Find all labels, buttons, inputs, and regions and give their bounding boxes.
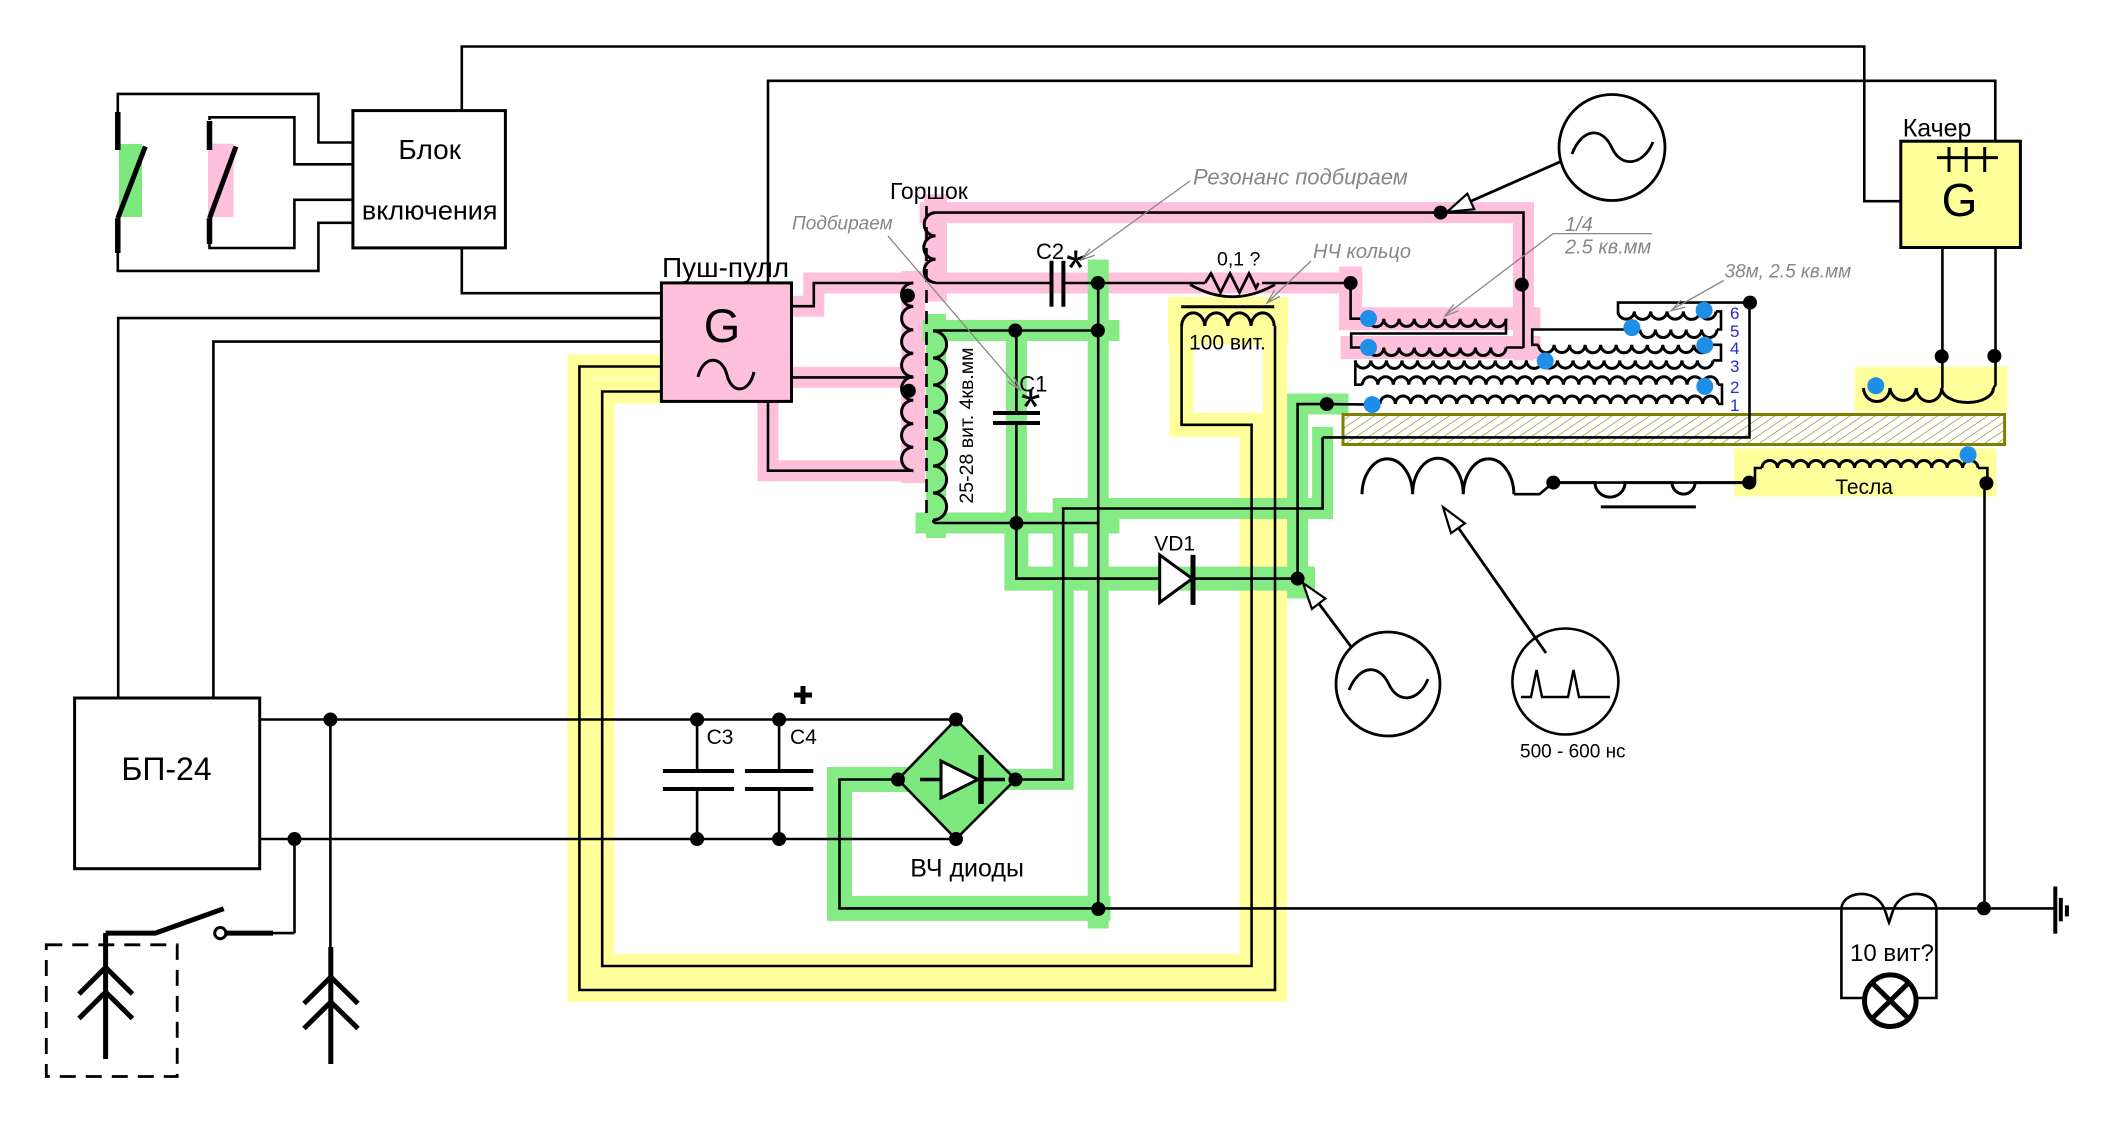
node: bridge AC left	[891, 773, 905, 787]
antenna 1	[103, 933, 108, 1059]
100-turn ring core bar	[1181, 305, 1274, 308]
svg-text:НЧ кольцо: НЧ кольцо	[1313, 241, 1411, 263]
100-turn ring winding (4 arcs)	[1182, 313, 1275, 326]
node: tesla ground junction	[1977, 901, 1991, 915]
resistor 0.1 ohm (zigzag with arc)	[1205, 274, 1259, 293]
svg-text:Качер: Качер	[1903, 114, 1972, 142]
svg-text:БП-24: БП-24	[121, 751, 211, 787]
sine source circle 1	[1559, 95, 1665, 201]
svg-text:C3: C3	[707, 726, 734, 749]
highlight band: green bridge left loop	[840, 780, 1099, 909]
transformer primary winding (8 arcs, pot core)	[902, 283, 914, 471]
kacher grid symbol	[1937, 156, 1998, 159]
polarity dot: primary winding 1	[901, 289, 915, 303]
winding start dot: tesla secondary	[1960, 446, 1977, 463]
node: spark coil output	[1546, 476, 1560, 490]
svg-text:100 вит.: 100 вит.	[1189, 332, 1266, 355]
switch 2 contacts and blade	[207, 121, 213, 150]
pot core dashed line	[925, 206, 928, 520]
node: kacher pin2 tap	[1987, 349, 2001, 363]
push-pull generator box	[661, 283, 791, 402]
svg-text:Резонанс подбираем: Резонанс подбираем	[1193, 165, 1408, 190]
wire: BP-24 riser 2 to push-pull input 3	[213, 342, 661, 698]
svg-text:Пуш-пулл: Пуш-пулл	[662, 252, 789, 283]
highlight band: pink primary return	[768, 401, 913, 471]
node: bridge AC right	[1009, 773, 1023, 787]
pulse source circle	[1512, 629, 1618, 735]
switch block box	[353, 111, 506, 248]
wire: BP-24 plus rail	[260, 718, 956, 721]
line choke: two dips	[1553, 483, 1749, 498]
wire: C2 junction drop	[1097, 283, 1100, 909]
wire: row2-row1 right bracket	[1718, 385, 1722, 404]
node: C3 top	[690, 713, 704, 727]
wire: top line from switch block to kacher	[462, 47, 1901, 202]
capacitor C4	[745, 769, 813, 773]
wire: outer switch loop top	[118, 94, 353, 143]
highlight band: green VD1 line	[1016, 523, 1303, 579]
НЧ row A winding	[1369, 319, 1507, 327]
svg-text:3: 3	[1730, 357, 1739, 376]
capacitor C2	[1050, 261, 1054, 307]
wire: VD1 output riser to stack row1	[1298, 404, 1373, 578]
highlight band: kacher feedback winding	[1855, 367, 2008, 412]
sine source circle 2	[1336, 632, 1440, 736]
wire: kacher pin 1	[1941, 248, 1944, 389]
svg-text:*: *	[1021, 379, 1040, 435]
transformer secondary winding (7 arcs)	[933, 331, 947, 520]
switch 1 highlight	[119, 144, 142, 217]
wire: bridge left loop to ground line	[840, 780, 2054, 909]
wire: row A hairpin return	[1351, 319, 1506, 348]
highlight band: pink C2 line left	[936, 273, 1087, 294]
wire: switch drop	[293, 839, 296, 933]
highlight band: green secondary winding	[926, 324, 946, 528]
node: stack top corner	[1743, 296, 1757, 310]
node: secondary top junction	[1091, 324, 1105, 338]
wire: C2 line	[936, 282, 1206, 285]
tesla secondary winding (14 bumps)	[1762, 460, 1978, 468]
highlight band: pink resonance top line	[930, 213, 1524, 350]
node: C3 bottom	[690, 832, 704, 846]
svg-text:Блок: Блок	[398, 134, 461, 165]
node: bridge plus	[949, 713, 963, 727]
wire: VD1 line	[1016, 523, 1297, 579]
winding start dot: row 1	[1364, 396, 1381, 413]
stack row 1 winding	[1380, 396, 1718, 404]
wire: tesla winding left lead	[1749, 468, 1762, 483]
node: kacher pin1 tap	[1935, 349, 1949, 363]
switch 2 highlight	[208, 144, 234, 217]
node: resonance line tap	[1434, 206, 1448, 220]
svg-text:10 вит?: 10 вит?	[1850, 940, 1934, 967]
highlight band: green C2-to-bottom vertical	[1088, 270, 1109, 918]
svg-text:G: G	[1942, 174, 1978, 226]
node: secondary bottom junction	[1009, 516, 1023, 530]
node: tesla primary left	[1742, 476, 1756, 490]
lamp (circle with X)	[1865, 975, 1917, 1027]
node: resistor line end	[1344, 276, 1358, 290]
resonance pickup winding (3 arcs)	[924, 213, 936, 283]
wire: second top line from push-pull to kacher	[768, 81, 1995, 283]
wire: C1 branch	[1015, 331, 1018, 524]
winding start dot: row 3	[1537, 353, 1554, 370]
wire: row3-row2 left connector	[1355, 360, 1362, 384]
node: minus rail switch tap	[288, 832, 302, 846]
svg-text:Тесла: Тесла	[1835, 476, 1893, 499]
highlight band: 100-turn ring head	[1168, 297, 1288, 345]
winding start dot: row B	[1360, 339, 1377, 356]
svg-text:C2: C2	[1036, 239, 1064, 264]
winding start dot: row 4	[1696, 337, 1713, 354]
НЧ row B winding	[1369, 348, 1507, 356]
ferrite rod (hatched bar)	[1343, 415, 2005, 445]
winding start dot: row 6	[1696, 302, 1713, 319]
highlight band: yellow outer loop (push-pull to ring)	[579, 310, 1275, 990]
polarity dot: primary winding 2	[902, 384, 916, 398]
arrow from sine 2 to VD1 output	[1308, 589, 1352, 648]
highlight band: tesla secondary winding	[1734, 449, 1996, 497]
spark coil (3 big arcs)	[1362, 458, 1514, 494]
highlight band: yellow inner loop (push-pull to ring)	[602, 310, 1251, 966]
highlight band: green secondary top line	[933, 320, 1109, 341]
svg-text:1: 1	[1730, 396, 1739, 415]
push-pull sine squiggle	[698, 360, 754, 389]
wire: row A feed	[1351, 283, 1369, 319]
wire: row5-row4 left connector	[1532, 330, 1640, 345]
svg-text:0,1 ?: 0,1 ?	[1217, 249, 1261, 271]
node: rows riser mid	[1515, 278, 1529, 292]
wire: yellow inner loop	[602, 326, 1251, 966]
highlight band: green stack return path	[1016, 437, 1323, 779]
wire: secondary top line	[933, 329, 1098, 332]
svg-text:38м, 2.5 кв.мм: 38м, 2.5 кв.мм	[1725, 262, 1852, 283]
kacher box	[1901, 141, 2021, 247]
wire: BP-24 minus rail	[260, 838, 956, 841]
wire: outer switch loop bottom	[118, 223, 353, 271]
wire: primary return	[768, 401, 913, 470]
diode VD1	[1160, 555, 1193, 603]
wire: row6-row5 right bracket	[1716, 311, 1721, 329]
svg-text:*: *	[1066, 240, 1085, 296]
line choke underline	[1601, 505, 1696, 508]
stack row 4 winding	[1539, 345, 1710, 353]
node: bridge minus	[949, 832, 963, 846]
wire: yellow outer loop	[579, 326, 1275, 990]
node: stack row1 lead	[1320, 397, 1334, 411]
wire: resonance top line	[936, 213, 1524, 348]
svg-text:6: 6	[1730, 304, 1739, 323]
node: C4 bottom	[772, 832, 786, 846]
highlight band: green C1 branch	[1006, 331, 1027, 524]
wire: kacher pin 2	[1993, 248, 1995, 389]
wire: push-pull output top to primary	[792, 283, 914, 306]
dashed box around antenna 1	[46, 945, 177, 1077]
winding start dot: row 5	[1623, 319, 1640, 336]
svg-text:C4: C4	[790, 726, 817, 749]
node: VD1 cathode net	[1291, 572, 1305, 586]
bridge diode symbol	[920, 778, 1005, 781]
wire: row B to riser	[1506, 346, 1524, 349]
10-turn pickup coil with lamp	[1841, 894, 1936, 998]
highlight band: pink primary winding	[901, 283, 925, 471]
svg-text:включения: включения	[362, 196, 498, 226]
stack row 5 winding	[1640, 330, 1717, 338]
plus sign	[794, 693, 812, 698]
stack row 6 winding	[1618, 311, 1716, 319]
power switch	[106, 909, 224, 933]
svg-text:Подбираем: Подбираем	[792, 214, 893, 235]
winding start dot: row A	[1360, 310, 1377, 327]
svg-text:VD1: VD1	[1154, 532, 1195, 555]
node: tesla secondary bottom	[1979, 476, 1993, 490]
wire: stack return through rod	[1016, 303, 1750, 780]
wire: tesla winding right lead	[1978, 468, 1987, 483]
wire: C3 branch	[696, 720, 699, 840]
node: C4 top	[772, 713, 786, 727]
wire: stack top line	[1618, 303, 1750, 312]
wire: inner switch loop bottom	[210, 200, 353, 248]
svg-text:G: G	[704, 299, 741, 352]
wire: resistor line right	[1262, 282, 1351, 285]
antenna 2	[328, 947, 333, 1064]
highlight band: pink resistor line	[1110, 273, 1352, 294]
highlight band: pink row B winding	[1352, 336, 1529, 359]
stack row 3 winding	[1355, 360, 1713, 368]
wire: spark coil to tesla	[1514, 483, 1749, 495]
arrow from pulse source to spark coil	[1448, 513, 1546, 653]
wire: block bottom to push-pull input 1	[462, 248, 662, 293]
svg-text:2.5 кв.мм: 2.5 кв.мм	[1564, 237, 1652, 259]
svg-text:500 - 600 нс: 500 - 600 нс	[1520, 742, 1626, 763]
stack row 2 winding	[1362, 377, 1718, 385]
svg-text:4: 4	[1730, 339, 1739, 358]
ground symbol	[2053, 887, 2057, 934]
kacher feedback winding (4 arcs)	[1864, 388, 1994, 403]
wire: tesla bottom drop	[1983, 483, 1986, 908]
wire: antenna 2 drop	[329, 720, 332, 948]
switch 1 contacts and blade	[115, 112, 121, 150]
winding start dot: row 2	[1696, 378, 1713, 395]
highlight band: pink resonance top winding	[924, 206, 947, 290]
highlight band: green VD1-out riser	[1298, 404, 1338, 588]
svg-text:25-28 вит. 4кв.мм: 25-28 вит. 4кв.мм	[956, 347, 978, 503]
arrow from sine 1 to resonance line	[1452, 161, 1562, 210]
wire: row4-row3 right bracket	[1709, 345, 1721, 361]
wire: push-pull center tap	[792, 376, 914, 379]
wire: C4 branch	[778, 720, 781, 840]
highlight band: pink row A winding	[1351, 278, 1529, 319]
node: C2 output junction	[1091, 276, 1105, 290]
BP-24 power supply box	[75, 698, 260, 869]
wire: BP-24 riser 1 to push-pull input 2	[118, 318, 661, 698]
svg-text:1/4: 1/4	[1565, 214, 1593, 236]
capacitor C3	[663, 769, 734, 773]
highlight band: pink push-pull output top	[792, 283, 936, 306]
highlight band: pink center tap	[792, 367, 914, 388]
node: C1 top junction	[1008, 324, 1022, 338]
wire: inner switch loop top	[210, 117, 353, 164]
wire: secondary bottom line	[933, 520, 1098, 523]
svg-text:2: 2	[1730, 378, 1739, 397]
winding start dot: kacher feedback	[1867, 377, 1884, 394]
capacitor C1	[993, 411, 1040, 415]
bridge rectifier (HF diodes)	[898, 720, 1016, 840]
highlight band: green secondary bottom line	[926, 513, 1109, 534]
node: plus rail antenna tap	[323, 713, 337, 727]
svg-text:Горшок: Горшок	[890, 178, 969, 204]
node: ground line junction	[1091, 902, 1105, 916]
svg-text:ВЧ диоды: ВЧ диоды	[910, 855, 1024, 883]
